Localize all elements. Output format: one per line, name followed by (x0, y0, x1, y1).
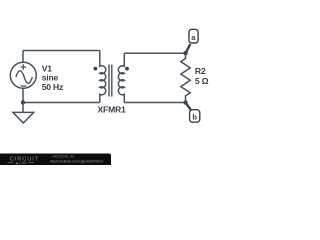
resistor R2 (181, 53, 190, 102)
wire V1 top vertical (22, 51, 24, 63)
wire top-left horizontal (23, 50, 100, 52)
node b flag (190, 110, 200, 123)
svg-text:a4525249 ; 5a: a4525249 ; 5a (53, 155, 75, 159)
junction dot node a (183, 51, 187, 55)
svg-text:5 Ω: 5 Ω (195, 76, 209, 86)
voltage source V1 circle (10, 62, 36, 88)
ground (22, 103, 24, 113)
node a flag (189, 29, 198, 43)
watermark LAB logo text (8, 161, 35, 163)
transformer secondary polarity dot (125, 67, 129, 71)
svg-text:b: b (192, 112, 197, 121)
svg-text:50 Hz: 50 Hz (42, 82, 63, 92)
svg-text:XFMR1: XFMR1 (98, 104, 127, 114)
wire secondary top horizontal (124, 52, 185, 54)
transformer XFMR1 primary winding (100, 51, 106, 103)
junction dot node b (183, 100, 187, 104)
wire bottom-left horizontal (23, 102, 100, 104)
transformer core lines (109, 65, 112, 97)
V1 minus sign (21, 85, 27, 87)
wire V1 bottom vertical (22, 88, 24, 102)
svg-text:▲LAB: ▲LAB (15, 161, 27, 165)
wire secondary bottom horizontal (124, 102, 185, 104)
V1 sine wave (16, 71, 33, 84)
watermark bar (0, 154, 111, 167)
V1 plus sign (21, 64, 26, 69)
node a flag pointer (186, 44, 191, 53)
node b flag pointer (186, 103, 191, 111)
transformer primary polarity dot (94, 67, 98, 71)
transformer XFMR1 secondary winding (118, 53, 124, 102)
svg-text:http//circuitlab.com/cgky4at32: http//circuitlab.com/cgky4at3276md (50, 160, 103, 164)
junction dot at ground node (21, 100, 25, 104)
svg-text:R2: R2 (195, 66, 206, 76)
